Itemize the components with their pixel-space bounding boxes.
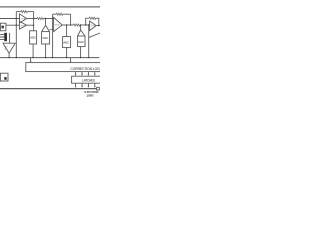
svg-text:ADC: ADC	[30, 36, 36, 40]
svg-text:ADC: ADC	[63, 40, 69, 44]
svg-text:SHA: SHA	[21, 24, 26, 27]
svg-text:CORRECTION LOGIC: CORRECTION LOGIC	[70, 67, 100, 71]
svg-text:LATCHES: LATCHES	[82, 79, 95, 83]
svg-text:THA: THA	[55, 24, 60, 27]
svg-text:DAC: DAC	[43, 36, 49, 40]
svg-text:THA: THA	[90, 25, 95, 28]
svg-text:12 BITS: 12 BITS	[86, 94, 93, 98]
svg-text:DAC: DAC	[78, 40, 84, 44]
svg-text:SHA: SHA	[21, 18, 26, 21]
